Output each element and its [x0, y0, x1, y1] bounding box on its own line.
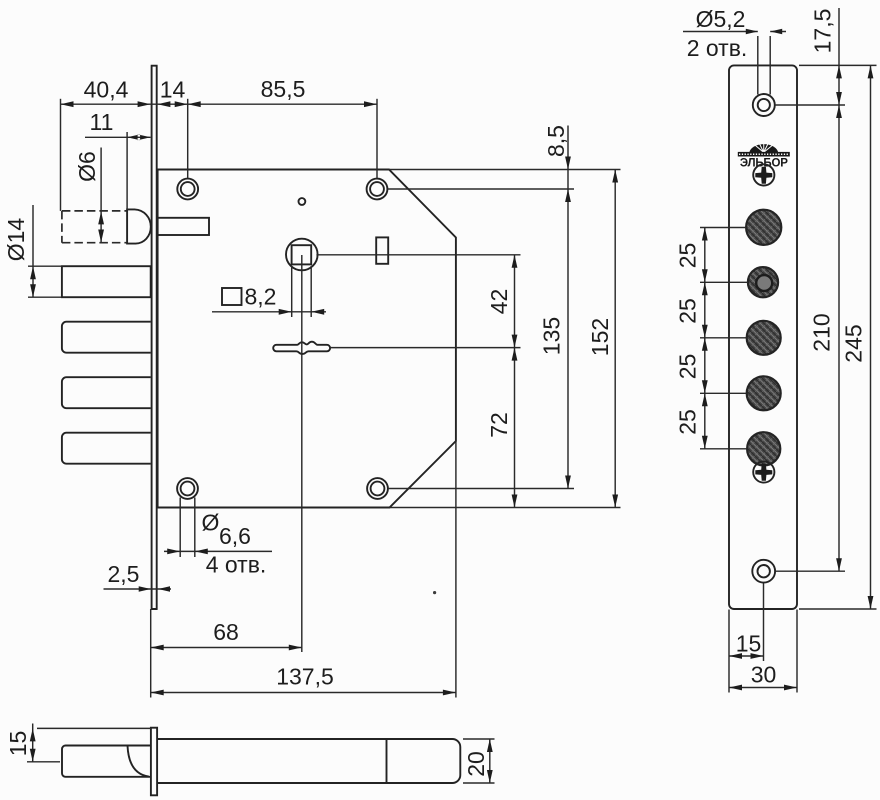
arrows 210	[836, 105, 842, 571]
vertical centerline through spindle and keyhole	[301, 255, 303, 652]
latch head (D-shape)	[127, 209, 151, 243]
square symbol for 8,2	[222, 288, 242, 305]
svg-text:135: 135	[539, 317, 565, 355]
leader from bottom-right hole	[388, 488, 574, 490]
arrows 42	[512, 255, 518, 348]
svg-text:85,5: 85,5	[261, 76, 306, 102]
faceplate edge (main view)	[151, 66, 158, 609]
deadbolt 4	[62, 433, 151, 464]
dim 20 line	[489, 739, 491, 783]
bolt end circle 2 (with pin hole)	[748, 267, 778, 297]
body bottom edge extension line	[390, 507, 621, 509]
ext top hole center	[775, 104, 845, 106]
arrows 68	[151, 645, 302, 651]
dim chain 25 line	[704, 228, 706, 449]
arrows 152	[612, 170, 618, 508]
arrows 135	[565, 189, 571, 489]
arrows 85,5	[188, 101, 377, 107]
deadbolt 1	[62, 266, 151, 297]
bolt end circle 1 (latch)	[746, 210, 781, 245]
svg-text:6,6: 6,6	[219, 523, 251, 549]
svg-text:Ø14: Ø14	[3, 218, 29, 262]
dim 15 (side) line	[32, 724, 34, 762]
ext line 30 right	[796, 610, 798, 693]
top mounting screw (phillips)	[753, 164, 774, 185]
ext plate top	[799, 64, 877, 66]
dim line 17,5/210	[838, 8, 840, 571]
deadbolt 3	[62, 377, 151, 408]
svg-text:Ø5,2: Ø5,2	[696, 6, 746, 32]
dim line 42/72	[514, 255, 516, 508]
dim line 152	[614, 170, 616, 508]
arrows 17,5	[836, 65, 842, 105]
ext lines Ø5,2	[758, 36, 770, 95]
svg-text:8,2: 8,2	[245, 284, 277, 310]
arrows 20	[487, 739, 493, 783]
arrows 72	[512, 348, 518, 508]
bolt end circle 5	[747, 432, 780, 465]
svg-text:30: 30	[751, 662, 777, 688]
ext line left of 40,4	[60, 99, 62, 211]
dim line 245	[870, 65, 872, 609]
spindle square 8.2mm	[292, 245, 312, 264]
arrows 11	[127, 134, 151, 140]
arrows 245	[868, 65, 874, 609]
svg-text:25: 25	[675, 354, 701, 380]
svg-text:68: 68	[213, 619, 239, 645]
svg-text:72: 72	[486, 412, 512, 438]
svg-text:40,4: 40,4	[84, 77, 129, 103]
latch bolt side	[62, 746, 151, 777]
arrows Ø6,6	[167, 549, 208, 555]
ext line hole1	[187, 99, 189, 178]
svg-text:2 отв.: 2 отв.	[687, 35, 748, 61]
arrows 15 side	[30, 728, 36, 761]
svg-text:137,5: 137,5	[276, 664, 334, 690]
dim 11 line	[85, 136, 151, 138]
dim line 137,5	[151, 692, 456, 694]
spindle follower circle	[286, 239, 318, 271]
arrows 14	[157, 101, 187, 107]
svg-text:11: 11	[90, 109, 114, 135]
ext line 11 (latch head left edge)	[126, 132, 128, 209]
faceplate cross-section	[151, 728, 157, 796]
leader from keyhole	[331, 347, 521, 349]
logo ЭЛЬБОР fan	[749, 142, 778, 153]
arrows 25 chain	[702, 228, 708, 449]
svg-text:25: 25	[675, 409, 701, 435]
dim 40,4 / 14 / 85,5 line	[61, 103, 378, 105]
svg-text:245: 245	[841, 324, 867, 362]
arrows 2,5	[139, 586, 170, 591]
lock body outline	[158, 170, 456, 508]
ext lines 20	[463, 739, 495, 783]
svg-text:42: 42	[486, 289, 512, 315]
ext lines Ø14	[28, 266, 62, 297]
bolt end circle 4	[747, 376, 781, 410]
top screw hole	[753, 94, 775, 116]
body top edge extension line	[389, 169, 621, 171]
svg-text:25: 25	[675, 298, 701, 324]
small slot rectangle	[376, 237, 388, 263]
arrows 15	[729, 653, 764, 659]
screw hole bottom-left	[177, 478, 198, 499]
screw hole top-left	[177, 179, 198, 200]
leader from hole2	[388, 188, 575, 190]
latch tail inside body	[158, 218, 209, 235]
dim line Ø6,6	[164, 550, 272, 552]
svg-text:25: 25	[675, 243, 701, 269]
deadbolt 2	[62, 322, 151, 353]
ext bottom hole center	[776, 570, 846, 572]
svg-text:15: 15	[5, 731, 31, 757]
svg-text:Ø6: Ø6	[74, 151, 100, 182]
dim line 8,5/135	[567, 126, 569, 489]
screw hole bottom-right	[367, 478, 388, 499]
leader from spindle	[316, 254, 520, 256]
body right edge extension line	[455, 441, 457, 698]
svg-text:4 отв.: 4 отв.	[206, 552, 267, 578]
bolt end circle 3	[747, 321, 781, 355]
arrows Ø6	[98, 211, 104, 242]
bottom mounting screw (phillips)	[753, 461, 774, 482]
bottom screw hole	[752, 560, 775, 583]
dim line 2,5	[104, 588, 172, 590]
ext line hole2	[376, 99, 378, 178]
svg-text:152: 152	[587, 318, 613, 356]
dim line Ø6	[100, 148, 102, 243]
svg-text:15: 15	[736, 631, 762, 657]
screw hole top-right	[367, 179, 388, 200]
dim line Ø14	[32, 205, 34, 297]
svg-text:8,5: 8,5	[543, 125, 569, 157]
svg-text:Ø: Ø	[202, 510, 220, 536]
svg-text:210: 210	[809, 313, 835, 351]
svg-text:2,5: 2,5	[108, 561, 140, 587]
faceplate outline	[729, 65, 797, 609]
ext lines 15	[729, 584, 764, 693]
latch hidden (dashed)	[62, 211, 127, 243]
dim line 68	[151, 647, 302, 649]
dim 30	[729, 687, 797, 689]
arrows 40,4	[61, 101, 151, 107]
ext lines Ø6,6	[180, 498, 195, 558]
faceplate lower extension line	[150, 609, 152, 698]
arrows 8,5	[565, 157, 571, 170]
ext plate bottom	[799, 608, 877, 610]
arrows Ø14	[30, 266, 36, 297]
keyhole (suvald key profile)	[273, 342, 330, 354]
arrows 137,5	[151, 690, 456, 696]
latch bevel curve	[128, 746, 149, 777]
arrows 30	[729, 685, 797, 691]
leaders to bolt circles	[700, 228, 748, 449]
dim 15 (front)	[729, 655, 764, 657]
ext lines 15 side	[27, 728, 151, 761]
arrows Ø5,2	[746, 29, 782, 34]
logo band	[738, 152, 790, 157]
dim line 8,2	[212, 311, 326, 313]
body seam line	[386, 739, 388, 783]
small pin hole	[299, 198, 306, 205]
dim Ø5,2 shelf and line	[683, 31, 786, 33]
svg-text:14: 14	[160, 77, 186, 103]
ext lines 8,2	[292, 266, 312, 317]
svg-text:17,5: 17,5	[810, 9, 836, 54]
arrows 8,2	[279, 309, 325, 315]
svg-text:20: 20	[463, 751, 489, 777]
tiny speck	[433, 591, 436, 594]
body side outline	[157, 739, 460, 783]
